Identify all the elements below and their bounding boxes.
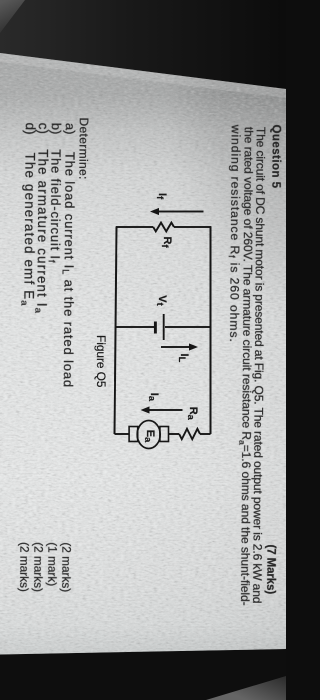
wire bottom — [115, 227, 117, 434]
label Ia — [148, 393, 159, 401]
wire right branch bottom — [115, 433, 130, 435]
current arrow Ia — [149, 409, 183, 411]
wire left edge upper — [174, 226, 211, 228]
caption Figure Q5 — [94, 335, 106, 387]
resistor Rf — [153, 223, 174, 232]
motor terminal tab top — [160, 427, 169, 442]
wire left edge lower — [116, 226, 154, 228]
motor armature Ea circle — [137, 421, 160, 449]
resistor Ra — [179, 429, 200, 439]
wire Vt branch lower — [116, 326, 155, 328]
battery Vt short plate — [154, 322, 157, 334]
wire right branch top — [200, 433, 211, 435]
battery Vt long plate — [163, 314, 165, 340]
current arrow If — [158, 211, 204, 213]
label Ea — [144, 430, 155, 443]
label Ra — [187, 407, 198, 420]
wire right branch mid — [168, 433, 179, 435]
label Rf — [161, 237, 172, 248]
current arrow IL — [161, 346, 190, 348]
wire Vt branch upper — [165, 326, 211, 328]
motor terminal tab bottom — [129, 427, 138, 442]
wire top — [210, 227, 212, 434]
label IL — [178, 354, 189, 363]
label Vt — [157, 295, 168, 305]
label If — [156, 193, 167, 199]
